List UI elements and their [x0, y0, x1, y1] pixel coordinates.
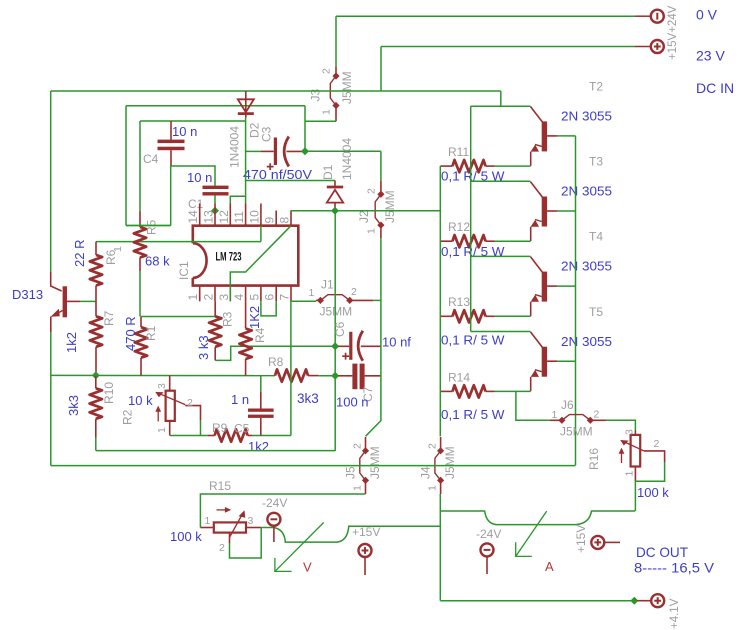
svg-text:0,1 R/ 5 W: 0,1 R/ 5 W [441, 333, 505, 348]
resistor R1 lead [140, 317, 142, 328]
wire 23V to collector bus [500, 91, 502, 106]
svg-text:T3: T3 [589, 155, 603, 169]
svg-text:R15: R15 [209, 479, 231, 493]
svg-text:R12: R12 [448, 220, 470, 234]
svg-text:C4: C4 [143, 152, 159, 166]
resistor R12 [453, 235, 486, 247]
wire pin7 to J1 [291, 300, 316, 302]
capacitor C6 [338, 331, 381, 361]
wire y=435.5 right [252, 435, 291, 437]
svg-text:-24V: -24V [476, 527, 501, 541]
svg-text:1: 1 [624, 471, 636, 477]
svg-text:J5MM: J5MM [560, 425, 593, 439]
capacitor C1 [203, 186, 229, 196]
wire y=375.5 bus [51, 374, 275, 376]
svg-text:3k3: 3k3 [297, 391, 319, 406]
svg-text:R7: R7 [102, 310, 116, 326]
wire 0V rail [336, 15, 635, 17]
svg-text:7: 7 [278, 294, 292, 301]
diode D1 [327, 181, 343, 211]
wire Q1 emitter rail [50, 332, 52, 466]
svg-text:R11: R11 [448, 145, 469, 159]
svg-text:13: 13 [202, 210, 216, 224]
wire C1 to pin13 [214, 196, 216, 204]
wire pin10 internal [260, 226, 262, 242]
wire output drop [439, 494, 441, 601]
svg-text:2N 3055: 2N 3055 [561, 109, 612, 124]
IC1 pin 11 [245, 204, 247, 226]
svg-text:R8: R8 [268, 355, 284, 369]
terminal lead +4.1V [637, 600, 651, 602]
resistor R12 lead left [440, 240, 452, 242]
junction C3 right [301, 147, 309, 155]
svg-text:R1: R1 [144, 325, 158, 341]
transistor Q T2 2N3055 [531, 107, 558, 166]
resistor R5 [134, 227, 146, 258]
voltmeter needle [275, 523, 324, 572]
svg-text:J2: J2 [357, 210, 371, 223]
resistor R5 lead [139, 211, 141, 227]
svg-text:14: 14 [186, 210, 200, 224]
resistor R14 [453, 385, 486, 397]
IC1 pin 1 [199, 286, 201, 302]
svg-text:R4: R4 [253, 327, 267, 343]
wire pin7 vertical [290, 301, 292, 435]
svg-text:3 k3: 3 k3 [196, 335, 211, 360]
IC1 pin 3 [229, 286, 231, 302]
wire pin3 to pin8 diagonal [230, 226, 291, 301]
IC1 pin 14 [199, 204, 201, 226]
wire output bottom [440, 600, 634, 602]
svg-text:10 nf: 10 nf [382, 335, 411, 350]
wire D2 to pin11 [245, 118, 247, 204]
svg-text:R16: R16 [587, 448, 601, 470]
resistor R11 [453, 160, 486, 172]
resistor R3 lead2 [214, 347, 216, 361]
svg-text:R3: R3 [221, 311, 235, 327]
transistor Q T4 2N3055 [531, 257, 558, 316]
resistor R10 [90, 388, 102, 418]
terminal X1 0V [651, 10, 664, 23]
resistor R4 lead2 [245, 359, 247, 376]
svg-text:1K2: 1K2 [247, 306, 262, 329]
resistor R7 lead2 [95, 347, 97, 372]
svg-text:R5: R5 [145, 219, 159, 235]
svg-text:100 k: 100 k [170, 529, 202, 544]
wire y=316.5 [141, 316, 215, 318]
svg-text:1: 1 [427, 485, 439, 491]
svg-text:100 k: 100 k [637, 485, 669, 500]
svg-text:1k2: 1k2 [64, 332, 79, 353]
svg-text:DC OUT: DC OUT [636, 544, 688, 560]
svg-text:C6: C6 [333, 321, 347, 337]
svg-text:1: 1 [205, 515, 211, 527]
resistor R13 lead [486, 315, 495, 317]
svg-text:V: V [303, 560, 312, 575]
resistor R7 lead [95, 301, 97, 316]
resistor R1 lead2 [140, 358, 142, 376]
resistor R10 lead2 [95, 419, 97, 438]
wire J5 to R15 [200, 494, 365, 528]
svg-text:0,1 R/ 5 W: 0,1 R/ 5 W [441, 244, 505, 259]
svg-text:2N 3055: 2N 3055 [561, 259, 612, 274]
wire J1 to x380 rail [373, 299, 381, 301]
svg-text:470 R: 470 R [123, 316, 138, 351]
svg-text:A: A [545, 559, 554, 574]
svg-text:R10: R10 [102, 382, 116, 404]
resistor R12 lead [486, 240, 495, 242]
resistor R6 [90, 255, 102, 285]
capacitor C3 [261, 137, 305, 171]
svg-text:2: 2 [352, 443, 364, 449]
svg-text:1: 1 [186, 294, 200, 301]
jumper J4 [435, 437, 444, 494]
IC1 pin 4 [245, 286, 247, 302]
wire base T4 [557, 285, 576, 287]
svg-text:0,1 R/ 5 W: 0,1 R/ 5 W [441, 169, 505, 184]
svg-text:1: 1 [366, 228, 378, 234]
wire R6 top to pin10 [96, 241, 261, 243]
IC1 pin 5 [260, 286, 262, 302]
wire x=126 drop [125, 106, 127, 226]
resistor R8 [275, 369, 308, 381]
wire y=225.5 [126, 225, 171, 227]
svg-text:T4: T4 [589, 230, 603, 244]
wire to J3 pin1 [305, 120, 336, 122]
trimmer R16 [619, 431, 665, 482]
wire x=335 rail [334, 211, 336, 451]
svg-text:6: 6 [263, 294, 277, 301]
svg-text:1: 1 [112, 246, 124, 252]
svg-text:2: 2 [351, 286, 357, 298]
wire voltmeter loop [274, 526, 440, 542]
wire to J6 [516, 391, 550, 420]
wire collector T5 [471, 331, 531, 333]
supply -24V #2 stub [486, 556, 488, 574]
transistor Q1 D313 [51, 272, 80, 332]
svg-text:1N4004: 1N4004 [340, 138, 354, 180]
svg-text:2: 2 [219, 542, 225, 554]
wire 23V bus y=91 [51, 90, 501, 92]
IC1 pin 7 [290, 286, 292, 302]
svg-text:3: 3 [248, 515, 254, 527]
wire x=381 rail to J5 [366, 238, 381, 436]
svg-text:10 n: 10 n [187, 170, 212, 185]
IC1 pin 8 [290, 211, 292, 226]
resistor R11 lead [486, 165, 495, 167]
resistor R10 lead [95, 375, 97, 388]
wire base rail [575, 136, 577, 466]
supply -24V #1 [267, 513, 280, 526]
svg-text:23 V: 23 V [696, 48, 725, 64]
junction D1 bottom [331, 207, 339, 215]
svg-text:12: 12 [217, 210, 231, 224]
svg-text:J4: J4 [419, 466, 433, 479]
wire R5 bottom drop [139, 271, 141, 317]
resistor R9 lead [248, 435, 252, 437]
wire 23V drop [380, 47, 382, 92]
svg-text:J6: J6 [561, 398, 574, 412]
svg-text:3k3: 3k3 [66, 395, 81, 416]
svg-text:2: 2 [594, 409, 600, 421]
IC1 pin 12 [229, 204, 231, 226]
svg-text:3: 3 [156, 383, 168, 389]
transistor Q T3 2N3055 [531, 182, 558, 241]
svg-text:C3: C3 [260, 126, 274, 142]
svg-text:100 n: 100 n [336, 395, 369, 410]
wire 23V rail [381, 46, 635, 48]
wire y=121 [140, 120, 246, 122]
junction C6 left [331, 342, 339, 350]
svg-text:2: 2 [187, 397, 193, 409]
svg-text:J5MM: J5MM [383, 190, 397, 223]
svg-text:D1: D1 [321, 164, 335, 180]
resistor R13 [453, 310, 486, 322]
svg-text:1: 1 [321, 109, 333, 115]
capacitor C4 [158, 121, 185, 166]
wire base T3 [557, 210, 576, 212]
diode D2 [238, 91, 254, 118]
resistor R14 lead [486, 390, 495, 392]
svg-text:+15V+24V: +15V+24V [667, 5, 679, 60]
wire collector T2 [471, 105, 531, 107]
resistor R4 lead [245, 301, 247, 328]
wire emitter right T5 [495, 390, 531, 392]
wire R10 bottom [95, 438, 97, 451]
resistor R4 [239, 329, 251, 359]
resistor R3 lead [214, 301, 216, 316]
capacitor C5 [248, 392, 274, 436]
wire left rail collector D313 [50, 91, 52, 272]
resistor R13 lead left [440, 315, 452, 317]
svg-text:0,1 R/ 5 W: 0,1 R/ 5 W [441, 407, 505, 422]
wire R3 bottom to C6 [215, 346, 335, 360]
wire y=465.6 base drive bus [51, 465, 576, 467]
wire collector T3 [471, 180, 531, 182]
jumper J3 [330, 67, 339, 122]
svg-text:11: 11 [232, 211, 246, 224]
svg-text:J5MM: J5MM [340, 71, 354, 104]
svg-text:1k2: 1k2 [248, 439, 269, 454]
terminal X2 23V [651, 40, 664, 53]
svg-text:22 R: 22 R [72, 240, 87, 267]
trimmer R15 [200, 507, 261, 543]
svg-text:R9: R9 [212, 421, 228, 435]
wire x=140 drop to R5 [139, 121, 141, 211]
wire R16 down [634, 481, 636, 511]
wire pin12 branch [230, 196, 245, 203]
svg-text:R2: R2 [121, 409, 135, 425]
wire R16 pin2 loop [635, 462, 664, 481]
resistor R1 [135, 327, 147, 357]
resistor R7 [90, 316, 102, 346]
wire C3 to J2 [305, 150, 381, 152]
svg-text:+15V: +15V [352, 525, 380, 539]
svg-text:C1: C1 [188, 197, 204, 211]
wire terminal lead [635, 46, 651, 48]
wire J6 to R16 [606, 420, 635, 430]
svg-text:1: 1 [309, 287, 315, 299]
svg-text:2: 2 [427, 443, 439, 449]
svg-text:-24V: -24V [262, 496, 287, 510]
svg-text:2N 3055: 2N 3055 [561, 334, 612, 349]
wire R8 to C7 dot [319, 375, 336, 377]
svg-text:3: 3 [217, 294, 231, 301]
svg-text:2: 2 [366, 188, 378, 194]
wire base T5 [557, 360, 576, 362]
terminal +4.1V [651, 594, 664, 607]
svg-text:1N4004: 1N4004 [228, 126, 242, 168]
svg-text:10 n: 10 n [172, 124, 197, 139]
wire base T2 [557, 135, 576, 137]
svg-text:T5: T5 [589, 305, 603, 319]
resistor R3 [209, 316, 221, 346]
supply -24V #2 [481, 543, 494, 556]
svg-text:1: 1 [552, 409, 558, 421]
svg-text:+4.1V: +4.1V [669, 598, 681, 629]
wire to C3 [246, 150, 261, 152]
wire pin8 to rail [291, 210, 440, 212]
svg-text:+15V: +15V [574, 525, 588, 553]
svg-text:C5: C5 [234, 422, 250, 436]
wire emitter rail [439, 166, 441, 436]
resistor R9 lead left [208, 435, 215, 437]
junction C1/pin13 [211, 207, 219, 215]
wire drop to J2 [380, 151, 382, 181]
wire y=106 [126, 105, 305, 107]
wire R15 pin2 loop [230, 528, 262, 559]
wire Q1 base [80, 300, 96, 302]
svg-text:T2: T2 [589, 80, 603, 94]
wire y=225.5 segment [126, 225, 171, 227]
junction output [630, 597, 638, 605]
supply +15V #2 [591, 536, 604, 549]
wire y=450.6 [96, 450, 335, 452]
wire collector T4 [471, 255, 531, 257]
op-amp U1 IC1 LM723 body [193, 226, 298, 286]
transistor Q T5 2N3055 [531, 332, 558, 391]
svg-text:R14: R14 [448, 370, 470, 384]
svg-text:1: 1 [156, 427, 168, 433]
svg-text:2N 3055: 2N 3055 [561, 184, 612, 199]
wire terminal lead [635, 15, 651, 17]
jumper J1 [316, 295, 373, 304]
wire R2 pin2 drop [200, 420, 202, 436]
svg-text:8: 8 [278, 217, 292, 224]
svg-text:4: 4 [232, 294, 246, 301]
wire emitter right T2 [495, 165, 531, 167]
svg-text:9: 9 [263, 217, 277, 224]
IC1 pin 13 [214, 204, 216, 226]
svg-text:3: 3 [624, 429, 636, 435]
resistor R11 lead left [440, 165, 452, 167]
jumper J6 [550, 415, 606, 424]
svg-text:LM 723: LM 723 [216, 252, 242, 264]
supply -24V #1 stub [273, 526, 275, 543]
wire pin5 to pin6 [261, 301, 276, 316]
jumper J5 [360, 437, 369, 494]
supply +15V #1 [359, 544, 372, 557]
wire C4 to C1 [171, 166, 215, 226]
svg-text:IC1: IC1 [177, 261, 191, 280]
svg-text:J5: J5 [344, 466, 358, 479]
IC1 pin 2 [214, 286, 216, 302]
resistor R5 lead2 [139, 258, 141, 272]
wire emitter right T4 [495, 315, 531, 317]
svg-text:D313: D313 [12, 287, 43, 302]
svg-text:DC IN: DC IN [696, 80, 734, 96]
wire collector rail [470, 106, 472, 331]
wire R15 to -24V [261, 527, 274, 529]
svg-text:2: 2 [321, 68, 333, 74]
svg-text:2: 2 [654, 438, 660, 450]
resistor R8 lead [308, 375, 319, 377]
svg-text:J5MM: J5MM [368, 446, 382, 479]
wire J3 drop [335, 16, 337, 66]
resistor R9 [215, 429, 248, 441]
ammeter needle [516, 511, 547, 556]
IC1 pin 10 [260, 204, 262, 226]
capacitor C7 [338, 364, 381, 390]
jumper J2 [375, 181, 384, 238]
junction C7 left [331, 372, 339, 380]
svg-text:J1: J1 [321, 278, 334, 292]
svg-text:5: 5 [247, 294, 261, 301]
wire C5 top [260, 376, 262, 392]
svg-text:68 k: 68 k [145, 254, 170, 269]
IC1 pin 9 [275, 211, 277, 226]
svg-text:10: 10 [247, 210, 261, 224]
svg-text:1 n: 1 n [231, 392, 249, 407]
svg-text:J5MM: J5MM [443, 446, 457, 479]
svg-text:8----- 16,5 V: 8----- 16,5 V [634, 560, 715, 576]
IC1 pin 6 [275, 286, 277, 302]
trimmer R2 [155, 376, 200, 436]
resistor R6 lead [95, 242, 97, 255]
supply +15V #2 stub [604, 541, 620, 543]
supply +15V #1 stub [364, 557, 366, 575]
wire x=305 drop [304, 106, 306, 152]
svg-text:1: 1 [352, 485, 364, 491]
resistor R14 lead left [440, 390, 452, 392]
svg-text:0 V: 0 V [696, 7, 718, 23]
resistor R6 lead2 [95, 286, 97, 302]
wire ammeter loop [440, 511, 635, 525]
svg-text:2: 2 [202, 294, 216, 301]
wire emitter right T3 [495, 240, 531, 242]
svg-text:R13: R13 [448, 295, 470, 309]
junction R7/R10 [92, 371, 100, 379]
svg-text:10 k: 10 k [128, 393, 153, 408]
wire y=180.5 to D1 [246, 180, 335, 182]
wire y=435.5 left [170, 435, 208, 437]
